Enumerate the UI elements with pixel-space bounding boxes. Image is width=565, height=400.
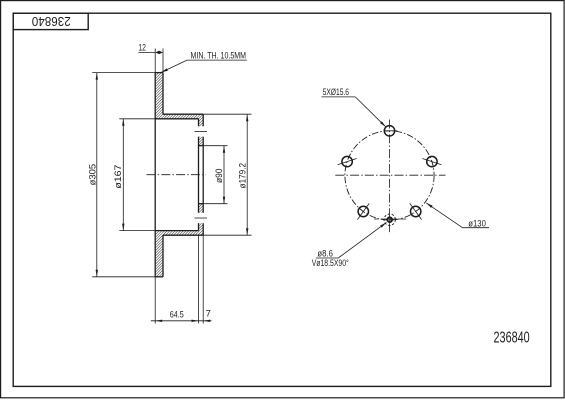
countersink D18.5 dashed circle bbox=[384, 214, 395, 225]
text D167 rotated bbox=[113, 165, 124, 189]
bolt hole lower-left bbox=[357, 203, 369, 219]
svg-text:64.5: 64.5 bbox=[170, 309, 184, 320]
hub bore top edge bbox=[199, 145, 204, 147]
dimension D167 bbox=[119, 119, 155, 231]
bottom hole horizontal tick bbox=[374, 218, 407, 220]
dimension 12 arrow lens bbox=[155, 51, 163, 54]
ring bottom edge bbox=[155, 276, 163, 278]
friction ring section (bottom) hatch bbox=[155, 231, 163, 277]
text D305 rotated bbox=[87, 164, 98, 186]
section centerline bbox=[147, 174, 207, 176]
vertical centerline bbox=[389, 120, 391, 233]
hat wall inner edge (bottom) bbox=[155, 230, 198, 232]
title box part number 236840 (rotated 180) bbox=[32, 14, 71, 28]
svg-text:236840: 236840 bbox=[32, 14, 71, 28]
ring top edge bbox=[155, 72, 163, 74]
bolt hole centerline tick (top) bbox=[194, 130, 207, 132]
leader D130 bbox=[426, 203, 489, 228]
leader 5XD15.6 bbox=[322, 97, 386, 127]
svg-text:ø179.2: ø179.2 bbox=[238, 163, 249, 188]
svg-text:12: 12 bbox=[138, 42, 146, 53]
svg-text:MIN. TH. 10.5MM: MIN. TH. 10.5MM bbox=[191, 51, 247, 62]
title box top-left bbox=[13, 13, 88, 29]
bolt hole centerline tick (bottom) bbox=[194, 217, 207, 219]
text D90 rotated bbox=[214, 169, 225, 184]
bolt hole lower-right bbox=[410, 203, 422, 219]
leader MIN TH arrow bbox=[161, 68, 168, 72]
dimension D90 bbox=[203, 146, 227, 204]
bolt hole upper-right bbox=[422, 156, 441, 166]
dimension D179.2 bbox=[203, 114, 251, 235]
hat wall outer edge (top) bbox=[163, 113, 203, 115]
svg-text:ø90: ø90 bbox=[214, 169, 225, 184]
hat wall outer edge (bottom) bbox=[163, 234, 203, 236]
text D179.2 rotated bbox=[238, 163, 249, 188]
svg-text:Vø18.5X90°: Vø18.5X90° bbox=[312, 258, 349, 269]
leader MIN TH line bbox=[161, 60, 247, 72]
hat wall section (top) hatch bbox=[163, 114, 203, 119]
hub bore bottom edge bbox=[199, 203, 204, 205]
svg-text:7: 7 bbox=[206, 309, 211, 320]
horizontal centerline bbox=[335, 174, 445, 176]
bolt hole upper-left bbox=[338, 156, 357, 166]
mounting flange section hatch (between holes) bbox=[199, 119, 204, 126]
bolt circle D130 dash-dot bbox=[345, 131, 434, 220]
part outline bbox=[155, 73, 203, 277]
svg-text:ø167: ø167 bbox=[113, 165, 124, 189]
bolt hole top bbox=[384, 126, 394, 136]
dimension 64.5 and 7 bbox=[151, 235, 212, 323]
leader D8.6 countersink bbox=[316, 223, 387, 259]
dimension 12 extension lines bbox=[139, 49, 164, 73]
hat wall section (bottom) hatch bbox=[163, 231, 203, 236]
ring right edge (top) bbox=[162, 73, 164, 115]
flange right edge (broken at bolt holes) bbox=[202, 114, 204, 126]
top hole horizontal tick bbox=[384, 130, 398, 132]
ring right edge (bottom) bbox=[162, 235, 164, 277]
svg-text:236840: 236840 bbox=[494, 330, 530, 347]
ring outer-left edge + hat rim silhouette bbox=[154, 73, 156, 277]
friction ring section (top) hatch bbox=[155, 73, 163, 119]
countersunk hole D8.6 bbox=[387, 217, 392, 222]
svg-text:5XØ15.6: 5XØ15.6 bbox=[323, 87, 349, 98]
hat wall inner edge (top) bbox=[155, 118, 198, 120]
dimension 12 dim line bbox=[139, 51, 156, 53]
flange left edge (broken at bolt holes) bbox=[198, 119, 200, 126]
svg-text:ø305: ø305 bbox=[87, 164, 98, 186]
svg-text:ø130: ø130 bbox=[468, 218, 486, 229]
dimension D305 bbox=[92, 73, 155, 277]
